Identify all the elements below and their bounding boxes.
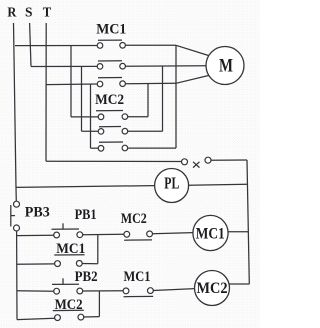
svg-text:MC1: MC1 xyxy=(196,226,225,243)
svg-text:PB1: PB1 xyxy=(75,207,97,223)
svg-text:PB2: PB2 xyxy=(75,269,98,285)
svg-text:MC2: MC2 xyxy=(95,92,124,108)
svg-text:MC2: MC2 xyxy=(55,297,83,313)
svg-text:M: M xyxy=(219,56,233,77)
svg-text:PB3: PB3 xyxy=(25,205,50,221)
svg-text:MC1: MC1 xyxy=(96,22,126,38)
svg-text:MC2: MC2 xyxy=(197,280,228,297)
svg-text:T: T xyxy=(43,6,52,21)
svg-text:S: S xyxy=(25,6,33,21)
svg-text:R: R xyxy=(7,6,17,21)
svg-text:PL: PL xyxy=(164,174,179,193)
svg-text:MC1: MC1 xyxy=(124,269,151,285)
svg-text:MC1: MC1 xyxy=(56,241,85,257)
svg-text:MC2: MC2 xyxy=(121,211,147,227)
